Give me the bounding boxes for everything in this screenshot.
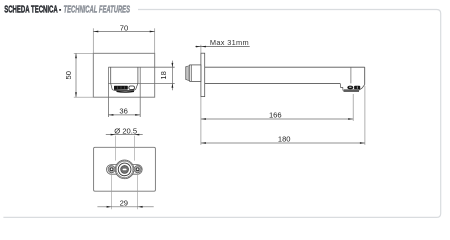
spout front: white tab [129, 86, 135, 89]
spout front: top edge + 18 ext line [108, 66, 174, 68]
right screw [134, 166, 141, 173]
dim 50 arrows [75, 54, 77, 98]
inlet collar (tapered rings) [186, 66, 190, 81]
dim 70 arrows [94, 31, 155, 33]
dim 20.5 arrows (outside) [111, 134, 140, 136]
dim 180 line [201, 142, 365, 144]
dim 29 extension lines [112, 173, 138, 209]
spout front: thin under arc [114, 89, 134, 92]
dim 166 arrows [201, 118, 353, 120]
spout front: shoulder line + 18 ext line [108, 82, 174, 84]
svg-text:180: 180 [278, 135, 291, 144]
obround escutcheon outline [107, 165, 143, 175]
dim 20.5 line [106, 134, 143, 136]
spout front: thick dark under arc [117, 90, 135, 93]
dim 20.5 extension lines [116, 136, 135, 161]
dim 70 extension lines [93, 28, 154, 53]
dim 70 line [93, 31, 154, 33]
left screw [108, 166, 115, 173]
Max 31mm leader line [195, 46, 249, 48]
spout bottom line [205, 82, 341, 84]
svg-text:SCHEDA TECNICA -: SCHEDA TECNICA - [4, 5, 61, 16]
svg-text:70: 70 [120, 23, 128, 32]
spout front: aerator dark block [114, 86, 128, 90]
aerator shadow lip (side) [344, 90, 360, 92]
svg-text:Max 31mm: Max 31mm [210, 38, 249, 47]
spout top line [205, 66, 365, 68]
svg-text:29: 29 [120, 198, 128, 207]
spout front: right edge / 36 ext line [139, 67, 141, 117]
aerator dark ellipse (side) [347, 86, 353, 90]
aerator dark block (side) [354, 86, 360, 90]
dim 180 extension line [364, 86, 366, 145]
spout end junction line [350, 67, 352, 83]
svg-text:166: 166 [269, 111, 282, 120]
dim 166 line [201, 118, 353, 120]
nut knurled outer ring [115, 160, 134, 179]
dim 36 arrows [109, 114, 140, 116]
nut inner disc with slot [121, 165, 129, 173]
svg-text:Ø 20.5: Ø 20.5 [114, 126, 137, 135]
svg-text:36: 36 [119, 107, 127, 116]
spout front: left edge / 36 ext line [107, 67, 109, 117]
svg-text:TECHNICAL FEATURES: TECHNICAL FEATURES [64, 5, 131, 16]
wall plate square [93, 53, 154, 97]
dim 29 line [97, 206, 153, 208]
dim 18 arrows (outside) [172, 63, 174, 88]
dim 29 arrows (outside) [107, 206, 143, 208]
dim 50 extension lines [74, 53, 94, 97]
spout right edge [364, 67, 366, 84]
svg-text:50: 50 [64, 71, 73, 79]
spout front: inner corner lines [110, 67, 112, 83]
nut bold ring [118, 163, 131, 176]
dim 180 arrows [201, 142, 365, 144]
aerator tray outline (side) [340, 83, 365, 90]
Max 31mm arrows [196, 46, 206, 48]
dim 18 line [171, 61, 173, 91]
svg-text:18: 18 [159, 71, 168, 79]
mounting plate rect [94, 147, 156, 191]
dim 50 line [75, 53, 77, 97]
dim 36 line [108, 114, 140, 116]
inlet cylinder [190, 65, 201, 82]
wall plate (side) [201, 53, 205, 96]
spout front: aerator tray outline [111, 83, 138, 90]
dim 166 extension line [352, 94, 354, 121]
wall face line (extension for Max31/166/180) [200, 45, 202, 145]
